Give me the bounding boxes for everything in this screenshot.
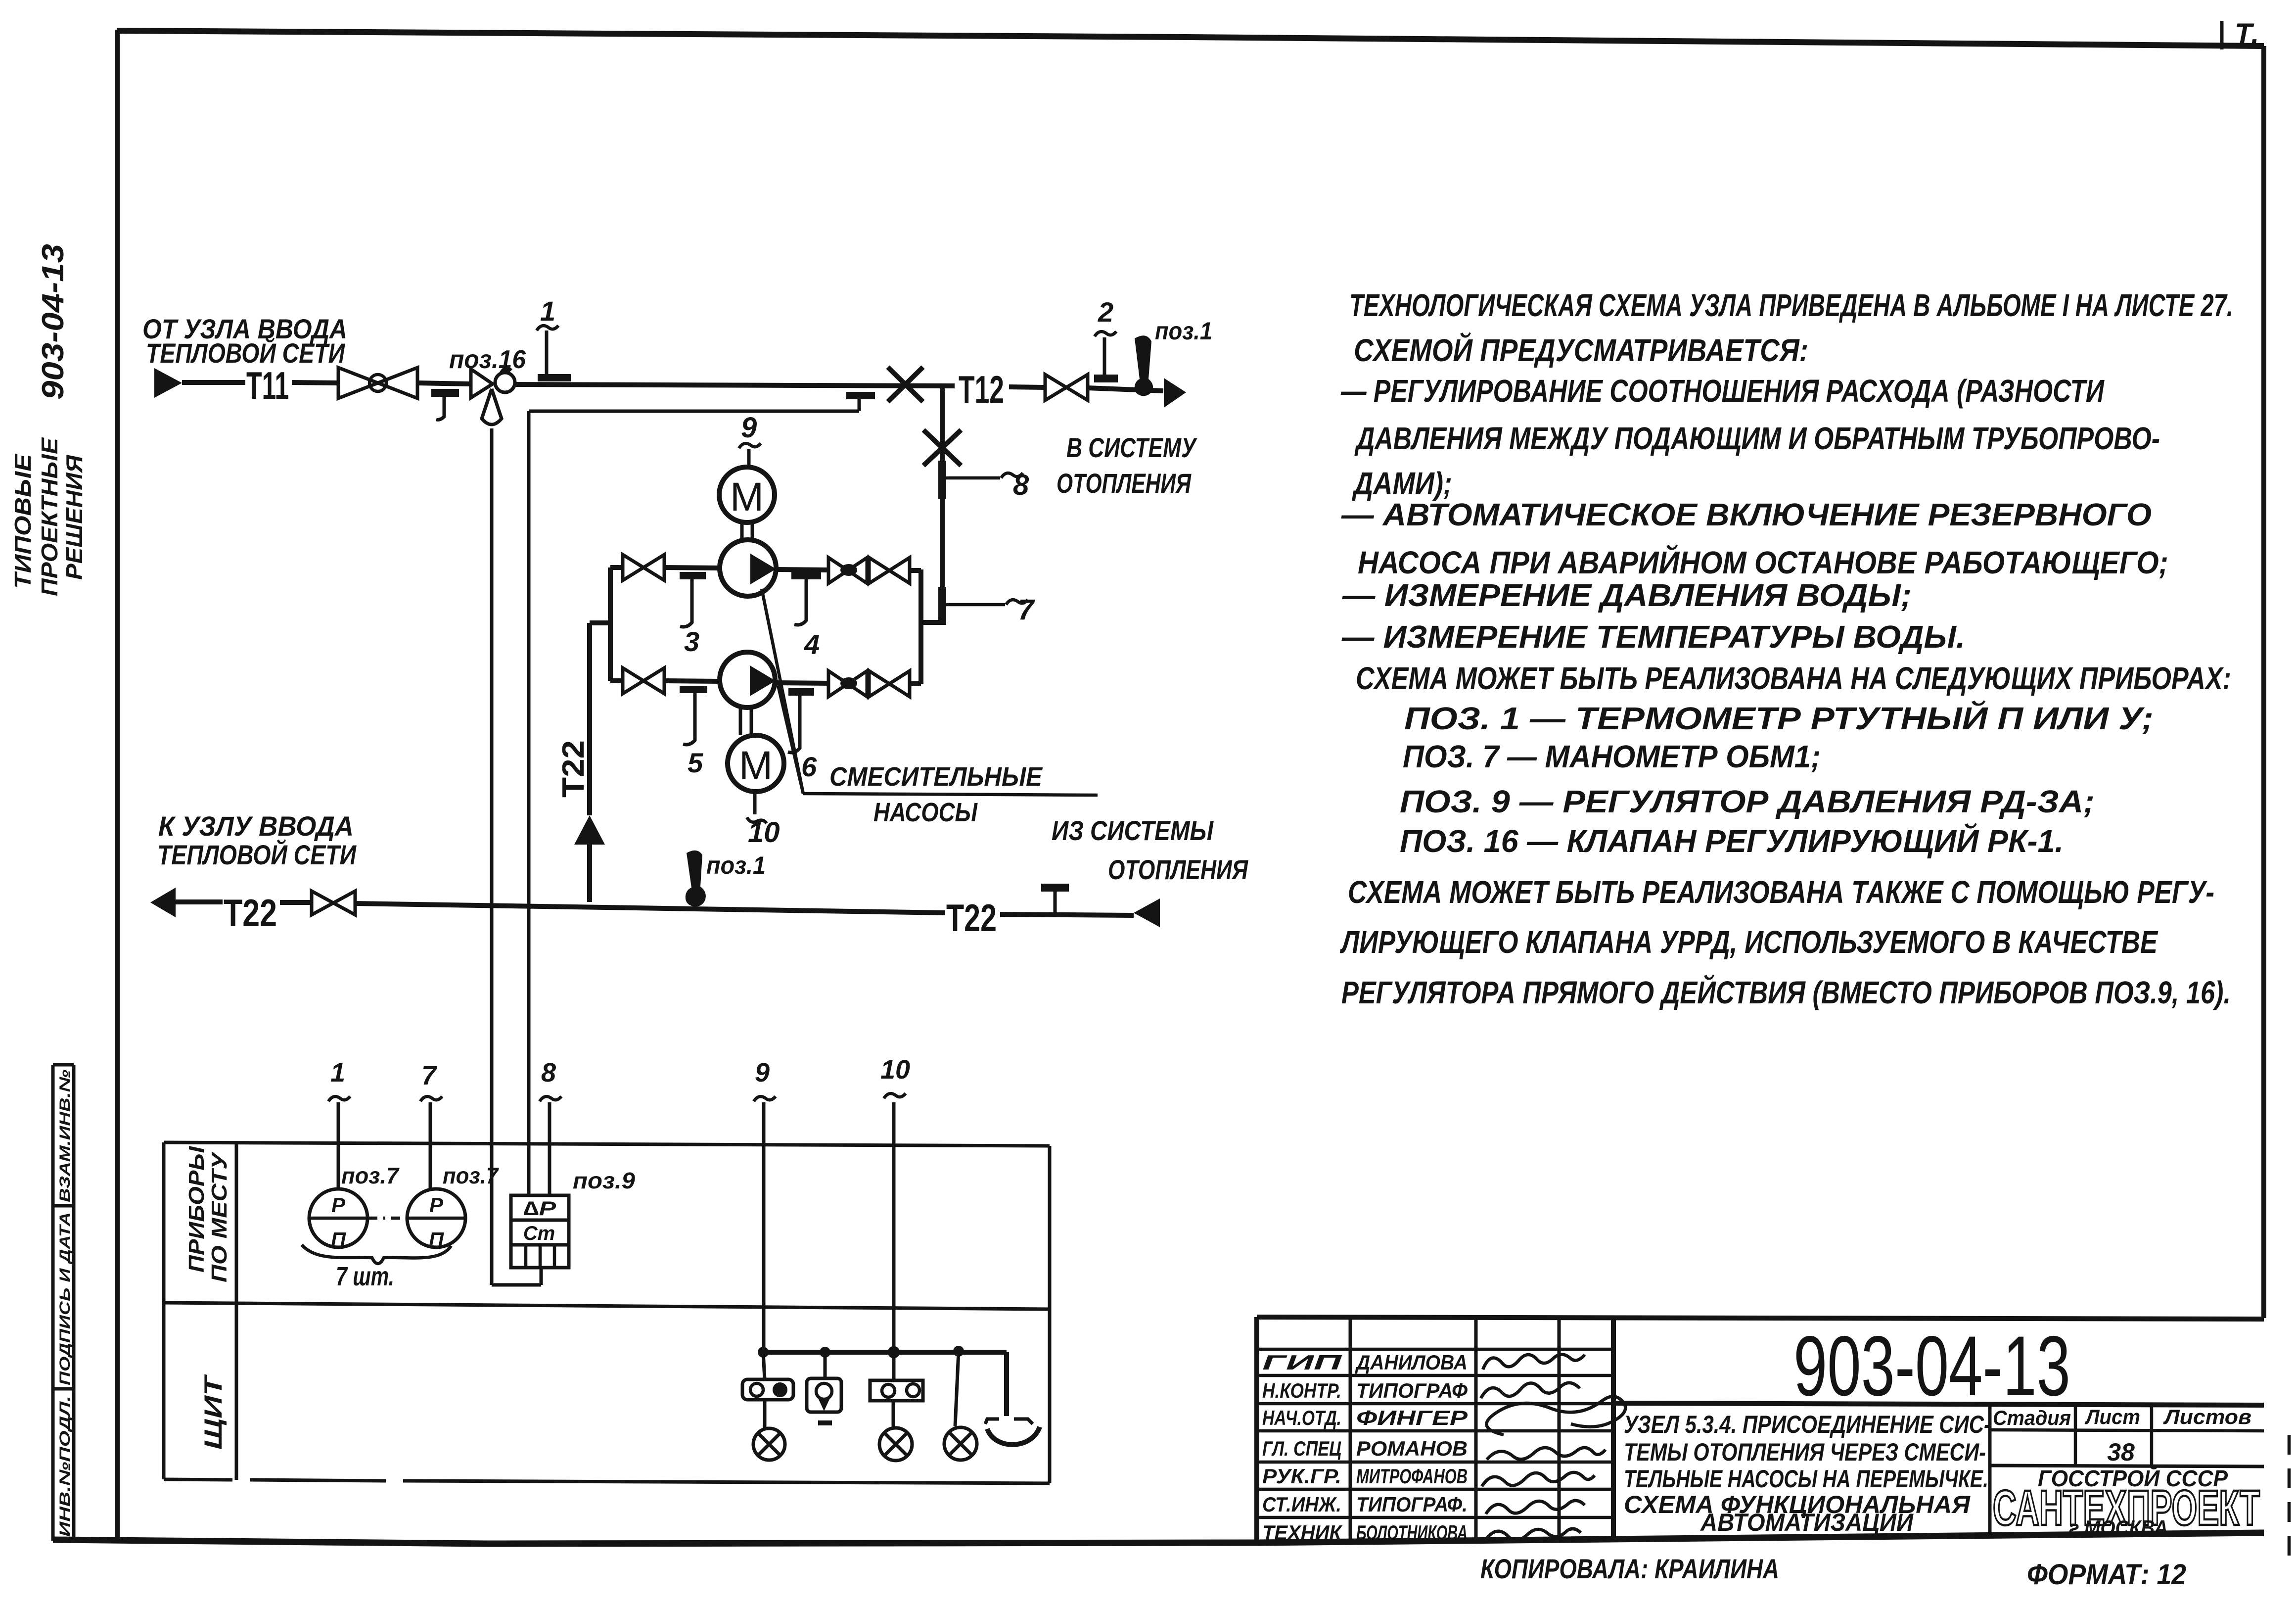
svg-text:ТИПОВЫЕ: ТИПОВЫЕ bbox=[10, 454, 36, 589]
brace 7 шт. bbox=[302, 1245, 451, 1264]
svg-text:7 шт.: 7 шт. bbox=[336, 1262, 394, 1291]
svg-text:ПОЗ. 7 — МАНОМЕТР ОБМ1;: ПОЗ. 7 — МАНОМЕТР ОБМ1; bbox=[1403, 739, 1821, 774]
svg-text:СТ.ИНЖ.: СТ.ИНЖ. bbox=[1262, 1493, 1341, 1516]
wire: suction upper bbox=[610, 565, 624, 570]
svg-text:ПРОЕКТНЫЕ: ПРОЕКТНЫЕ bbox=[37, 437, 62, 596]
svg-text:НАСОСЫ: НАСОСЫ bbox=[873, 798, 978, 827]
instrument tap 1 bbox=[538, 374, 571, 381]
row label ЩИТ bbox=[199, 1373, 227, 1450]
thermometer boss 6 bbox=[788, 688, 814, 696]
svg-text:ПОЗ. 16 — КЛАПАН РЕГУЛИРУЮЩИЙ: ПОЗ. 16 — КЛАПАН РЕГУЛИРУЮЩИЙ РК-1. bbox=[1400, 822, 2064, 859]
svg-text:3: 3 bbox=[684, 626, 699, 657]
wire: suction lower bbox=[610, 678, 624, 683]
svg-text:ТЕЛЬНЫЕ НАСОСЫ НА ПЕРЕМЫЧКЕ.: ТЕЛЬНЫЕ НАСОСЫ НА ПЕРЕМЫЧКЕ. bbox=[1624, 1465, 1988, 1493]
instrument tap 2 bbox=[1094, 375, 1118, 382]
flow arrow from heating system bbox=[1134, 898, 1160, 927]
panel leads 9 and 10 bbox=[762, 1102, 766, 1352]
svg-text:Т11: Т11 bbox=[246, 364, 289, 407]
svg-text:8: 8 bbox=[541, 1058, 556, 1087]
wire: discharge upper bbox=[776, 569, 829, 570]
svg-text:РЕГУЛЯТОРА ПРЯМОГО ДЕЙСТВИЯ (В: РЕГУЛЯТОРА ПРЯМОГО ДЕЙСТВИЯ (ВМЕСТО ПРИБ… bbox=[1341, 974, 2231, 1010]
motor 2 bbox=[728, 735, 784, 792]
svg-text:СХЕМОЙ ПРЕДУСМАТРИВАЕТСЯ:: СХЕМОЙ ПРЕДУСМАТРИВАЕТСЯ: bbox=[1354, 331, 1808, 368]
svg-text:ИЗ СИСТЕМЫ: ИЗ СИСТЕМЫ bbox=[1052, 815, 1214, 846]
dash-dot tie between gauges bbox=[368, 1217, 406, 1220]
suction bypass left leg bbox=[608, 567, 613, 681]
svg-text:ИНВ.№ПОДЛ.: ИНВ.№ПОДЛ. bbox=[57, 1396, 73, 1537]
mercury thermometer поз.1 bbox=[1135, 335, 1153, 396]
wire: pipe T11 bbox=[182, 380, 245, 385]
signatures bbox=[1483, 1354, 1585, 1370]
valve on Т22 bbox=[312, 891, 333, 915]
svg-text:поз.1: поз.1 bbox=[1155, 317, 1212, 345]
svg-text:6: 6 bbox=[801, 751, 817, 782]
svg-text:К УЗЛУ ВВОДА: К УЗЛУ ВВОДА bbox=[158, 810, 354, 842]
svg-text:поз.7: поз.7 bbox=[341, 1163, 400, 1188]
svg-text:5: 5 bbox=[688, 747, 703, 778]
svg-text:ЛИРУЮЩЕГО КЛАПАНА УРРД, ИСПОЛЬ: ЛИРУЮЩЕГО КЛАПАНА УРРД, ИСПОЛЬЗУЕМОГО В … bbox=[1340, 924, 2158, 960]
svg-text:ДАВЛЕНИЯ МЕЖДУ ПОДАЮЩИМ И ОБРА: ДАВЛЕНИЯ МЕЖДУ ПОДАЮЩИМ И ОБРАТНЫМ ТРУБО… bbox=[1354, 421, 2160, 456]
svg-text:ТИПОГРАФ.: ТИПОГРАФ. bbox=[1356, 1493, 1468, 1516]
check+gate valves pump2 discharge bbox=[828, 671, 848, 697]
title block bbox=[1257, 1317, 2264, 1543]
valve pump1 suction bbox=[623, 555, 643, 580]
svg-text:8: 8 bbox=[1013, 469, 1029, 501]
svg-text:ТЕПЛОВОЙ СЕТИ: ТЕПЛОВОЙ СЕТИ bbox=[157, 839, 357, 870]
svg-text:П: П bbox=[331, 1228, 346, 1251]
svg-text:Т22: Т22 bbox=[224, 891, 277, 935]
svg-text:4: 4 bbox=[804, 629, 820, 660]
svg-text:М: М bbox=[730, 474, 764, 520]
pressure tap 8 bbox=[938, 461, 946, 499]
svg-text:ФОРМАТ: 12: ФОРМАТ: 12 bbox=[2027, 1559, 2186, 1591]
svg-text:ПО МЕСТУ: ПО МЕСТУ bbox=[207, 1151, 231, 1282]
svg-text:Т12: Т12 bbox=[959, 368, 1004, 411]
svg-text:ПОДПИСЬ И ДАТА: ПОДПИСЬ И ДАТА bbox=[57, 1212, 73, 1385]
svg-text:СМЕСИТЕЛЬНЫЕ: СМЕСИТЕЛЬНЫЕ bbox=[829, 762, 1043, 792]
svg-text:ПРИБОРЫ: ПРИБОРЫ bbox=[184, 1146, 209, 1273]
svg-text:Р: Р bbox=[331, 1193, 346, 1217]
svg-text:РУК.ГР.: РУК.ГР. bbox=[1262, 1465, 1341, 1488]
svg-text:ТЕМЫ ОТОПЛЕНИЯ ЧЕРЕЗ СМЕСИ-: ТЕМЫ ОТОПЛЕНИЯ ЧЕРЕЗ СМЕСИ- bbox=[1624, 1438, 1986, 1466]
device: pushbutton block bbox=[763, 1352, 765, 1379]
svg-text:— РЕГУЛИРОВАНИЕ СООТНОШЕНИЯ РА: — РЕГУЛИРОВАНИЕ СООТНОШЕНИЯ РАСХОДА (РАЗ… bbox=[1340, 373, 2105, 409]
svg-text:7: 7 bbox=[421, 1061, 438, 1090]
svg-text:поз.16: поз.16 bbox=[449, 345, 526, 374]
svg-text:903-04-13: 903-04-13 bbox=[1793, 1319, 2070, 1414]
svg-text:— ИЗМЕРЕНИЕ ТЕМПЕРАТУРЫ ВОДЫ.: — ИЗМЕРЕНИЕ ТЕМПЕРАТУРЫ ВОДЫ. bbox=[1341, 619, 1965, 655]
svg-text:МИТРОФАНОВ: МИТРОФАНОВ bbox=[1356, 1465, 1468, 1488]
pressure tap 7 bbox=[938, 587, 946, 625]
lamp 3 bbox=[955, 1351, 959, 1426]
pump 1 bbox=[720, 540, 776, 596]
wire: T11 continues to junction bbox=[514, 384, 955, 386]
svg-text:поз.1: поз.1 bbox=[706, 851, 766, 879]
wire: discharge lower bbox=[776, 683, 829, 683]
svg-text:УЗЕЛ 5.3.4. ПРИСОЕДИНЕНИЕ СИС-: УЗЕЛ 5.3.4. ПРИСОЕДИНЕНИЕ СИС- bbox=[1624, 1411, 1991, 1438]
svg-text:903-04-13: 903-04-13 bbox=[36, 244, 70, 400]
svg-text:ГИП: ГИП bbox=[1262, 1351, 1342, 1374]
svg-text:ДАМИ);: ДАМИ); bbox=[1352, 466, 1452, 501]
svg-text:1: 1 bbox=[330, 1058, 345, 1087]
right margin dashed edge bbox=[2288, 1435, 2291, 1563]
svg-text:СХЕМА МОЖЕТ БЫТЬ РЕАЛИЗОВАНА Н: СХЕМА МОЖЕТ БЫТЬ РЕАЛИЗОВАНА НА СЛЕДУЮЩИ… bbox=[1356, 661, 2231, 696]
svg-text:ПОЗ. 9 — РЕГУЛЯТОР ДАВЛЕНИЯ РД: ПОЗ. 9 — РЕГУЛЯТОР ДАВЛЕНИЯ РД-ЗА; bbox=[1400, 784, 2095, 819]
local gauge 1 (поз.7) bbox=[337, 1102, 340, 1189]
callout: mixing pumps bbox=[762, 589, 803, 794]
valve on Т11 bbox=[338, 368, 378, 398]
svg-text:ТИПОГРАФ: ТИПОГРАФ bbox=[1356, 1379, 1468, 1402]
thermometer boss 4 bbox=[791, 572, 821, 579]
valve pump2 suction bbox=[623, 668, 643, 694]
svg-text:АВТОМАТИЗАЦИИ: АВТОМАТИЗАЦИИ bbox=[1699, 1509, 1914, 1536]
check+gate valves pump1 discharge bbox=[828, 558, 848, 583]
svg-text:ТЕХНОЛОГИЧЕСКАЯ СХЕМА УЗЛА ПРИ: ТЕХНОЛОГИЧЕСКАЯ СХЕМА УЗЛА ПРИВЕДЕНА В А… bbox=[1349, 287, 2233, 323]
svg-text:10: 10 bbox=[748, 816, 780, 849]
svg-text:СХЕМА МОЖЕТ БЫТЬ РЕАЛИЗОВАНА Т: СХЕМА МОЖЕТ БЫТЬ РЕАЛИЗОВАНА ТАКЖЕ С ПОМ… bbox=[1348, 874, 2214, 910]
svg-text:9: 9 bbox=[741, 412, 757, 444]
impulse line from supply pipe bbox=[846, 392, 875, 399]
bell bbox=[1004, 1352, 1009, 1416]
closed cross on jumper riser bbox=[923, 430, 961, 466]
thermometer boss 5 bbox=[680, 686, 707, 693]
svg-text:ТЕХНИК: ТЕХНИК bbox=[1262, 1521, 1343, 1544]
row label ПРИБОРЫ ПО МЕСТУ bbox=[184, 1146, 209, 1273]
svg-text:ПОЗ. 1 — ТЕРМОМЕТР РТУТНЫЙ П И: ПОЗ. 1 — ТЕРМОМЕТР РТУТНЫЙ П ИЛИ У; bbox=[1404, 700, 2154, 736]
svg-text:В СИСТЕМУ: В СИСТЕМУ bbox=[1066, 432, 1197, 463]
svg-text:Р: Р bbox=[429, 1193, 444, 1217]
svg-text:Ст: Ст bbox=[523, 1223, 555, 1244]
svg-text:ЩИТ: ЩИТ bbox=[199, 1373, 227, 1450]
svg-text:— ИЗМЕРЕНИЕ ДАВЛЕНИЯ ВОДЫ;: — ИЗМЕРЕНИЕ ДАВЛЕНИЯ ВОДЫ; bbox=[1342, 577, 1912, 613]
pump 2 bbox=[720, 652, 775, 708]
flow arrow to heating system bbox=[1164, 378, 1186, 408]
svg-text:1: 1 bbox=[540, 295, 555, 327]
lead 10 bbox=[753, 792, 757, 814]
mixing jumper riser from поз.16 bbox=[490, 428, 494, 1285]
svg-text:ГЛ. СПЕЦ: ГЛ. СПЕЦ bbox=[1262, 1437, 1341, 1460]
lead 9 bbox=[747, 449, 751, 467]
left stamp strip (ВЗАМ.ИНВ / ПОДПИСЬ / ИНВ №) bbox=[53, 1065, 74, 1541]
svg-text:ОТОПЛЕНИЯ: ОТОПЛЕНИЯ bbox=[1108, 854, 1248, 885]
svg-text:НАЧ.ОТД.: НАЧ.ОТД. bbox=[1262, 1406, 1341, 1429]
thermometer boss on Т11 bbox=[431, 389, 459, 397]
svg-text:ТЕПЛОВОЙ СЕТИ: ТЕПЛОВОЙ СЕТИ bbox=[146, 337, 345, 369]
device: pushbutton block 2 bbox=[870, 1380, 923, 1401]
svg-text:поз.7: поз.7 bbox=[443, 1163, 499, 1188]
svg-text:Листов: Листов bbox=[2163, 1405, 2251, 1428]
mercury thermometer поз.1 on return bbox=[686, 851, 706, 906]
svg-text:38: 38 bbox=[2107, 1438, 2135, 1466]
svg-text:7: 7 bbox=[1018, 594, 1035, 626]
svg-text:∆Р: ∆Р bbox=[523, 1198, 556, 1220]
svg-text:поз.9: поз.9 bbox=[573, 1168, 635, 1193]
instrument location table bbox=[164, 1142, 1050, 1483]
panel bus bbox=[763, 1350, 1007, 1355]
motor 1 bbox=[719, 467, 775, 522]
svg-text:ФИНГЕР: ФИНГЕР bbox=[1356, 1406, 1468, 1429]
discharge manifold bbox=[918, 569, 923, 684]
svg-text:Н.КОНТР.: Н.КОНТР. bbox=[1262, 1379, 1341, 1402]
svg-text:10: 10 bbox=[880, 1055, 910, 1085]
svg-text:Т.: Т. bbox=[2235, 18, 2259, 50]
svg-text:РЕШЕНИЯ: РЕШЕНИЯ bbox=[61, 454, 87, 580]
rotated left margin text ТИПОВЫЕ ПРОЕКТНЫЕ РЕШЕНИЯ bbox=[10, 454, 36, 589]
svg-text:Лист: Лист bbox=[2084, 1405, 2140, 1428]
svg-text:Стадия: Стадия bbox=[1993, 1406, 2071, 1429]
lead 8 to box bbox=[548, 1102, 551, 1196]
thermometer boss 3 bbox=[680, 572, 706, 579]
svg-text:КОПИРОВАЛА: КРАИЛИНА: КОПИРОВАЛА: КРАИЛИНА bbox=[1480, 1553, 1779, 1584]
closed cross on main line bbox=[888, 367, 923, 402]
svg-text:Т22: Т22 bbox=[946, 896, 997, 940]
local gauge 2 (поз.7) bbox=[429, 1102, 432, 1189]
impulse tie into box bottom bbox=[492, 1283, 541, 1287]
svg-text:П: П bbox=[429, 1228, 444, 1251]
return riser from Т22 to pumps bbox=[587, 623, 592, 815]
svg-text:— АВТОМАТИЧЕСКОЕ ВКЛЮЧЕНИЕ РЕЗ: — АВТОМАТИЧЕСКОЕ ВКЛЮЧЕНИЕ РЕЗЕРВНОГО bbox=[1341, 497, 2152, 532]
svg-text:НАСОСА ПРИ АВАРИЙНОМ ОСТАНОВЕ: НАСОСА ПРИ АВАРИЙНОМ ОСТАНОВЕ РАБОТАЮЩЕГ… bbox=[1358, 544, 2168, 580]
svg-text:РОМАНОВ: РОМАНОВ bbox=[1356, 1437, 1468, 1460]
svg-text:г.МОСКВА: г.МОСКВА bbox=[2069, 1516, 2168, 1539]
svg-text:9: 9 bbox=[755, 1058, 770, 1087]
top-right sheet mark Т. bbox=[2222, 18, 2259, 50]
wire: pipe Т22 bbox=[176, 899, 223, 904]
flow arrow out of Т22 bbox=[150, 888, 176, 917]
svg-text:БОЛОТНИКОВА: БОЛОТНИКОВА bbox=[1356, 1521, 1468, 1544]
svg-text:2: 2 bbox=[1098, 296, 1113, 328]
impulse riser to поз.9 bbox=[527, 411, 531, 1196]
svg-text:Т22: Т22 bbox=[556, 740, 591, 798]
thermometer boss on Т22 bbox=[1041, 884, 1069, 892]
valve on Т12 bbox=[1045, 375, 1066, 400]
device: control key bbox=[824, 1352, 827, 1378]
svg-text:ОТОПЛЕНИЯ: ОТОПЛЕНИЯ bbox=[1056, 468, 1192, 499]
svg-text:ДАНИЛОВА: ДАНИЛОВА bbox=[1355, 1351, 1468, 1374]
rotated left margin text 903-04-13 bbox=[36, 244, 70, 400]
svg-text:М: М bbox=[739, 743, 773, 788]
wire: riser to pump discharge manifold bbox=[940, 386, 945, 622]
flow arrow into T11 bbox=[154, 368, 182, 398]
svg-text:ВЗАМ.ИНВ.№: ВЗАМ.ИНВ.№ bbox=[57, 1070, 73, 1202]
